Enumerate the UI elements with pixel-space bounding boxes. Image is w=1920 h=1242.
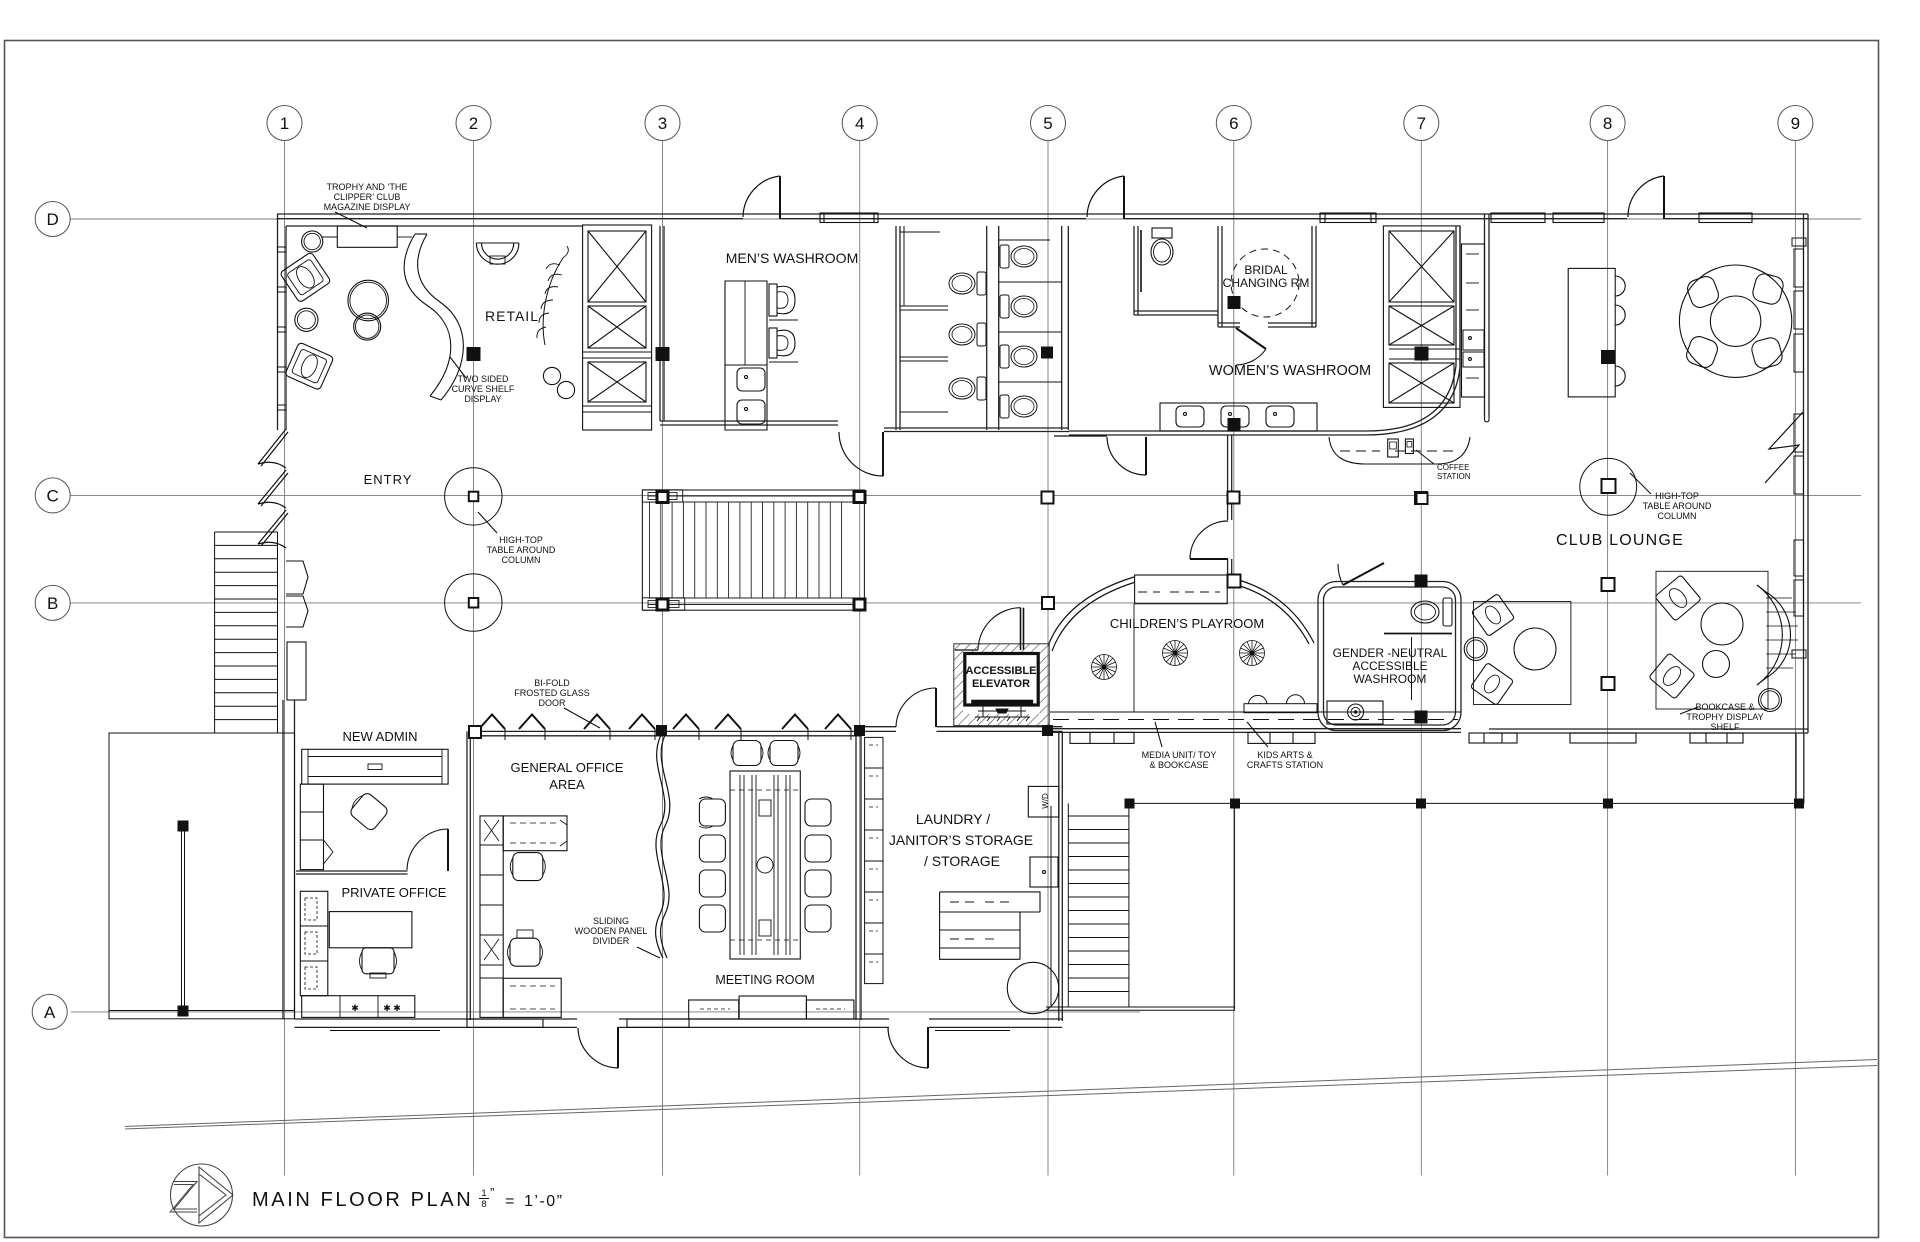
svg-text:5: 5	[1043, 114, 1052, 133]
credenzas bottom	[689, 1000, 739, 1019]
office north wall (entry side)	[470, 731, 861, 735]
stair corner columns	[657, 492, 865, 611]
bridal room door	[1236, 328, 1266, 349]
vanity counter	[725, 281, 767, 430]
admin chair	[347, 790, 390, 832]
utility box	[1030, 857, 1058, 887]
north wall door 1 (men's)	[779, 176, 781, 219]
svg-text:DOOR: DOOR	[539, 698, 567, 708]
windows north wall	[820, 213, 1752, 223]
north wall door 2 (women's)	[1123, 176, 1125, 219]
laundry north wall	[861, 727, 1062, 732]
bar high table	[1568, 268, 1615, 397]
semicircle display	[476, 243, 519, 264]
windows south wall	[330, 1019, 1010, 1031]
partitions left column	[900, 305, 948, 307]
east wall cabinets	[865, 737, 883, 983]
door corridor to women's	[1145, 437, 1147, 475]
svg-text:✱: ✱	[351, 1003, 359, 1013]
svg-text:& BOOKCASE: & BOOKCASE	[1149, 760, 1208, 770]
east wall zigzag opening	[1765, 412, 1803, 483]
south exterior wall of offices	[295, 1019, 1063, 1027]
svg-text:CLUB LOUNGE: CLUB LOUNGE	[1556, 532, 1684, 549]
svg-text:6: 6	[1229, 114, 1238, 133]
svg-text:CURVE SHELF: CURVE SHELF	[452, 384, 515, 394]
south wall door 2 (laundry exterior)	[927, 1027, 929, 1068]
svg-text:CRAFTS STATION: CRAFTS STATION	[1247, 760, 1323, 770]
new admin desk	[302, 749, 448, 784]
svg-text:ELEVATOR: ELEVATOR	[972, 678, 1030, 690]
top workstation	[503, 816, 567, 851]
svg-text:ACCESSIBLE: ACCESSIBLE	[966, 665, 1037, 677]
svg-text:COLUMN: COLUMN	[501, 555, 540, 565]
window planter box	[287, 642, 306, 700]
svg-text:9: 9	[1791, 114, 1800, 133]
club lounge south wall	[1489, 729, 1808, 803]
partitions right column	[999, 281, 1062, 283]
svg-text:ENTRY: ENTRY	[364, 472, 413, 487]
windows west wall upper: sill ticks	[278, 247, 287, 410]
sink counter	[1160, 403, 1317, 431]
lounge interior north face	[286, 225, 582, 227]
svg-text:7: 7	[1417, 114, 1426, 133]
svg-text:MEDIA UNIT/ TOY: MEDIA UNIT/ TOY	[1142, 750, 1217, 760]
svg-text:TWO SIDED: TWO SIDED	[458, 374, 509, 384]
svg-text:SHELF: SHELF	[1710, 722, 1740, 732]
svg-text:WOMEN’S WASHROOM: WOMEN’S WASHROOM	[1209, 363, 1371, 379]
door entry to washroom corridor	[882, 432, 884, 476]
svg-text:TROPHY AND ‘THE: TROPHY AND ‘THE	[327, 182, 408, 192]
svg-text:JANITOR’S STORAGE: JANITOR’S STORAGE	[889, 832, 1033, 848]
corridor kitchen wall (east of women's)	[1485, 214, 1490, 422]
svg-text:CHILDREN’S PLAYROOM: CHILDREN’S PLAYROOM	[1110, 616, 1264, 631]
meeting east wall	[856, 736, 861, 1020]
bottom cabinets	[302, 996, 415, 1018]
shelves	[940, 892, 1040, 959]
kids arts station	[1249, 695, 1268, 703]
svg-text:STATION: STATION	[1437, 472, 1471, 481]
sinks	[737, 368, 765, 391]
round tables	[348, 280, 389, 321]
svg-text:TABLE AROUND: TABLE AROUND	[1643, 501, 1712, 511]
svg-text:D: D	[47, 210, 59, 229]
svg-text:1: 1	[280, 114, 289, 133]
small hollow cols in high-top circles	[469, 492, 479, 608]
left cabinet column	[300, 784, 323, 870]
toilets left column (face left, tanks on center wall)	[949, 272, 986, 400]
private office desk	[329, 912, 412, 948]
S curve display	[404, 234, 451, 396]
windows playroom south	[1070, 732, 1315, 743]
retail west wall	[660, 226, 664, 421]
svg-text:AREA: AREA	[549, 777, 585, 792]
svg-text:1: 1	[481, 1188, 486, 1199]
laundry top-left door	[935, 688, 937, 727]
svg-text:3: 3	[658, 114, 667, 133]
svg-text:BI-FOLD: BI-FOLD	[534, 678, 570, 688]
women's washroom south wall + curved corner	[1069, 226, 1460, 435]
east wall shelf boxes	[1792, 238, 1806, 658]
bottom workstation	[503, 978, 561, 1017]
east deck edge	[1129, 802, 1804, 804]
svg-text:MAGAZINE DISPLAY: MAGAZINE DISPLAY	[324, 202, 411, 212]
svg-text:TROPHY DISPLAY: TROPHY DISPLAY	[1686, 712, 1763, 722]
general office cabinets vertical run	[480, 816, 503, 1018]
entry bay windows sawtooth	[258, 429, 288, 548]
dome arcs	[1048, 577, 1134, 646]
private office left cabinets	[300, 891, 328, 995]
svg-text:MEETING ROOM: MEETING ROOM	[715, 973, 814, 987]
svg-text:”: ”	[490, 1185, 494, 1200]
svg-text:CLIPPER’ CLUB: CLIPPER’ CLUB	[334, 192, 401, 202]
elevator lobby door	[1021, 608, 1024, 650]
svg-text:=: =	[505, 1193, 514, 1210]
armchair bottom	[285, 342, 334, 390]
gender-neutral washroom walls	[1318, 582, 1461, 731]
hollow column squares	[469, 479, 1616, 738]
grid lines horizontal	[71, 219, 1862, 1012]
private office door	[447, 829, 449, 871]
curved sofa	[1757, 585, 1782, 685]
accessible wc toilet	[1152, 228, 1172, 238]
lower pointed bays	[286, 561, 308, 627]
table	[730, 771, 800, 959]
svg-text:4: 4	[855, 114, 864, 133]
svg-text:B: B	[47, 594, 58, 613]
gender washroom door	[1343, 563, 1384, 585]
wavy divider	[656, 735, 665, 958]
media storage top	[1135, 575, 1228, 604]
north wall door 3 (club lounge)	[1663, 176, 1665, 219]
svg-text:✱ ✱: ✱ ✱	[383, 1003, 401, 1013]
hot water tank	[1007, 962, 1058, 1013]
svg-text:MAIN FLOOR PLAN: MAIN FLOOR PLAN	[252, 1189, 473, 1211]
side tables	[302, 231, 323, 252]
west wall upper	[278, 214, 287, 430]
svg-text:2: 2	[469, 114, 478, 133]
laundry east wall	[1059, 731, 1063, 1021]
shelving unit right	[1383, 226, 1460, 408]
bridal curtain dashed circle	[1231, 249, 1299, 317]
svg-text:DIVIDER: DIVIDER	[593, 936, 630, 946]
north exterior wall	[277, 214, 1808, 219]
svg-text:WOODEN PANEL: WOODEN PANEL	[575, 926, 648, 936]
bridal changing room walls	[1218, 226, 1316, 327]
high-top tables around columns	[445, 458, 1637, 631]
chairs	[699, 741, 831, 933]
svg-text:BOOKCASE &: BOOKCASE &	[1695, 702, 1754, 712]
svg-text:1’-0”: 1’-0”	[524, 1193, 564, 1210]
corridor wall at grid 6 (playroom east)	[1228, 435, 1232, 579]
W/D unit	[1028, 786, 1059, 817]
svg-text:NEW ADMIN: NEW ADMIN	[342, 729, 417, 744]
svg-text:SLIDING: SLIDING	[593, 916, 629, 926]
svg-text:TABLE AROUND: TABLE AROUND	[487, 545, 556, 555]
trophy display	[337, 226, 397, 247]
porch	[109, 733, 295, 1019]
seating group west	[1474, 602, 1571, 705]
grid lines vertical	[285, 141, 1796, 1176]
seating group east	[1656, 571, 1768, 709]
playroom south wall	[1050, 729, 1461, 733]
grid bubbles top	[32, 106, 1813, 1030]
svg-text:C: C	[47, 486, 59, 505]
svg-text:KIDS ARTS &: KIDS ARTS &	[1257, 750, 1312, 760]
new admin / private office wall	[296, 871, 408, 874]
kitchen counter	[1462, 244, 1485, 397]
svg-text:HIGH-TOP: HIGH-TOP	[1655, 491, 1699, 501]
pinwheel rugs	[1092, 641, 1265, 680]
svg-text:LAUNDRY /: LAUNDRY /	[916, 811, 990, 827]
svg-text:WASHROOM: WASHROOM	[1354, 672, 1427, 686]
svg-text:ACCESSIBLE: ACCESSIBLE	[1352, 659, 1427, 673]
svg-text:DISPLAY: DISPLAY	[464, 394, 501, 404]
svg-text:GENERAL OFFICE: GENERAL OFFICE	[511, 760, 624, 775]
office/divider wall vertical	[467, 731, 470, 1020]
leader lines	[335, 212, 1698, 958]
svg-text:A: A	[44, 1003, 56, 1022]
round table 4 chairs	[1679, 265, 1791, 377]
windows club south	[1469, 733, 1743, 743]
diagonal site line	[125, 1060, 1877, 1130]
exterior west stair	[215, 532, 278, 733]
men's washroom south wall	[660, 421, 838, 425]
east exterior wall	[1804, 214, 1809, 733]
armchair top	[280, 252, 332, 303]
accessible wc room walls	[1134, 226, 1218, 315]
corridor dashed line	[1050, 711, 1461, 713]
svg-text:CHANGING RM: CHANGING RM	[1223, 276, 1310, 290]
svg-text:MEN’S WASHROOM: MEN’S WASHROOM	[726, 250, 858, 266]
north arrow	[170, 1164, 233, 1226]
svg-text:PRIVATE OFFICE: PRIVATE OFFICE	[342, 885, 447, 900]
svg-text:GENDER -NEUTRAL: GENDER -NEUTRAL	[1333, 646, 1448, 660]
urinals	[769, 284, 798, 362]
west wall lower (by offices)	[283, 700, 295, 1019]
svg-text:W/D: W/D	[1041, 793, 1050, 809]
svg-text:8: 8	[1603, 114, 1612, 133]
south wall door 1 (general office)	[617, 1027, 619, 1068]
stall block walls	[884, 226, 1069, 432]
svg-text:FROSTED GLASS: FROSTED GLASS	[514, 688, 590, 698]
plant	[543, 258, 563, 345]
svg-text:HIGH-TOP: HIGH-TOP	[499, 535, 543, 545]
toilets right column	[1000, 245, 1037, 418]
svg-text:COLUMN: COLUMN	[1657, 511, 1696, 521]
accessible stall top	[900, 231, 940, 233]
svg-text:/ STORAGE: / STORAGE	[924, 853, 1000, 869]
svg-text:COFFEE: COFFEE	[1437, 463, 1469, 472]
svg-text:BRIDAL: BRIDAL	[1244, 263, 1288, 277]
playroom door on grid6 wall	[1190, 558, 1228, 560]
svg-text:RETAIL: RETAIL	[485, 308, 539, 324]
svg-text:8: 8	[481, 1199, 486, 1210]
